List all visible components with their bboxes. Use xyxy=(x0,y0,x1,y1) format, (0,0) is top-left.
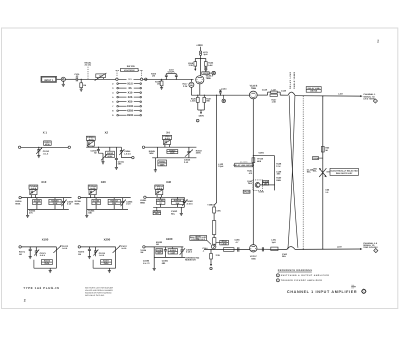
capacitor C1041 xyxy=(115,147,125,167)
svg-text:47K: 47K xyxy=(29,212,33,215)
resistor R101 1M xyxy=(80,79,87,89)
svg-text:CH 2 TERM: CH 2 TERM xyxy=(363,98,374,101)
supply arrow under R119 xyxy=(194,69,196,71)
svg-text:2-10.5: 2-10.5 xyxy=(187,202,194,205)
attenuator X40 input terminal xyxy=(144,196,185,198)
resistor R127 xyxy=(203,95,212,110)
svg-text:X10: X10 xyxy=(41,180,46,184)
svg-text:X100: X100 xyxy=(42,238,49,242)
svg-text:1µH: 1µH xyxy=(272,241,276,244)
svg-text:X4: X4 xyxy=(166,131,170,135)
resistor R143 xyxy=(213,238,216,245)
svg-text:.5-4.5: .5-4.5 xyxy=(40,254,46,257)
bottom rail hop over delay line xyxy=(287,247,295,250)
wire tube cathode long vertical xyxy=(252,99,254,245)
svg-text:COUPL: COUPL xyxy=(168,71,176,74)
trimmer capacitor C4050 xyxy=(61,198,74,210)
note box electrically selected xyxy=(326,168,358,175)
resistor R4044 value box xyxy=(158,160,167,166)
svg-text:7586: 7586 xyxy=(206,77,212,80)
wire X40 link lower xyxy=(156,207,158,210)
reference bubble lower xyxy=(210,267,212,270)
wire connector to node xyxy=(65,78,76,80)
svg-text:L157: L157 xyxy=(338,92,344,95)
svg-text:WITH BLUE OUTLINE.: WITH BLUE OUTLINE. xyxy=(85,294,105,297)
wire C107 bridge top bar xyxy=(166,73,176,75)
delay line shield dashed xyxy=(302,96,304,249)
capacitor C186 xyxy=(235,239,241,252)
ground under C1041 xyxy=(115,167,118,169)
svg-text:R1082: R1082 xyxy=(156,249,163,252)
trimmer arrow X2 xyxy=(98,153,107,162)
off page connector diamond top xyxy=(373,99,377,103)
diode D65 selected xyxy=(313,167,327,177)
wire long vertical to lower stage xyxy=(214,95,217,207)
svg-text:TP150: TP150 xyxy=(244,191,251,194)
svg-text:666K: 666K xyxy=(160,163,165,166)
svg-text:L147: L147 xyxy=(271,88,277,91)
svg-text:111K: 111K xyxy=(170,151,175,154)
capacitor C1082 xyxy=(164,247,167,258)
svg-text:3: 3 xyxy=(375,249,376,252)
vacuum tube V193 xyxy=(250,245,258,261)
svg-text:X250: X250 xyxy=(127,110,134,113)
svg-text:C148: C148 xyxy=(262,88,268,91)
svg-text:X200: X200 xyxy=(104,238,111,242)
capacitor C122 xyxy=(204,66,207,68)
attenuator X100 bottom rail xyxy=(34,267,57,269)
svg-text:1M: 1M xyxy=(78,253,81,256)
svg-text:X10: X10 xyxy=(128,91,133,94)
resistor R1055 label xyxy=(75,200,82,205)
svg-text:L197: L197 xyxy=(337,245,343,248)
svg-text:+225V: +225V xyxy=(196,44,203,47)
resistor R4047 label xyxy=(196,149,203,154)
test point TP150 xyxy=(243,190,264,193)
ground under X400 xyxy=(153,257,156,270)
wire tube plate right xyxy=(257,94,267,96)
resistor R1051 label xyxy=(15,200,22,205)
resistor R1056 to ground xyxy=(87,198,95,216)
svg-text:R1072: R1072 xyxy=(44,260,51,263)
svg-text:X40: X40 xyxy=(166,180,171,184)
delay line note xyxy=(307,168,314,173)
ground under X200 xyxy=(108,268,111,273)
delay line spec box xyxy=(306,87,321,93)
note box attenuator detail xyxy=(190,236,207,241)
ground under X20 xyxy=(85,215,88,217)
trimmer capacitor C1071 xyxy=(34,247,46,257)
svg-text:X2: X2 xyxy=(105,131,109,135)
svg-text:R4043: R4043 xyxy=(107,152,114,155)
coax connector symbol xyxy=(61,77,65,81)
switch contact row X10 xyxy=(112,91,141,94)
svg-text:SEL: SEL xyxy=(307,171,312,174)
svg-text:250K: 250K xyxy=(44,262,49,265)
switch contact row X100 xyxy=(112,105,141,108)
vacuum tube V133A xyxy=(196,74,214,84)
resistor R1071 label xyxy=(19,251,26,256)
svg-text:2.2K: 2.2K xyxy=(216,254,221,257)
node C107 junctions xyxy=(166,79,177,80)
resistor R1082 value box xyxy=(154,247,163,258)
svg-text:1.54K: 1.54K xyxy=(190,100,196,103)
test point TP130 xyxy=(202,71,216,75)
switch contact row X5 xyxy=(112,87,141,90)
svg-text:196K: 196K xyxy=(276,179,281,182)
ground under X40 xyxy=(180,207,183,215)
node junctions on rail xyxy=(197,95,221,96)
note box pointer arrow xyxy=(207,240,211,244)
capacitor C66 label xyxy=(325,189,330,194)
transistor Q153 dashed case xyxy=(253,180,263,191)
svg-text:1M: 1M xyxy=(156,243,159,246)
svg-text:RESISTOR: RESISTOR xyxy=(185,259,196,262)
svg-text:950K: 950K xyxy=(75,203,80,206)
svg-text:2.2K: 2.2K xyxy=(189,64,194,67)
svg-text:250K: 250K xyxy=(196,152,201,155)
svg-text:2.7K: 2.7K xyxy=(276,165,281,168)
trimmer capacitor C1076 xyxy=(93,247,105,257)
resistor R109 1M to ground xyxy=(155,79,163,88)
switch SW105 dashed frame xyxy=(116,70,143,77)
capacitor C124 xyxy=(219,87,227,95)
wire X4 link vertical xyxy=(157,147,159,158)
svg-text:X500: X500 xyxy=(127,114,134,117)
capacitor C1040 xyxy=(90,147,99,155)
trimmer capacitor C4046 xyxy=(184,147,193,164)
svg-text:X25: X25 xyxy=(128,96,133,99)
wire X200 right vertical xyxy=(115,247,117,268)
wire switch to grid rail xyxy=(143,78,194,80)
svg-text:1M: 1M xyxy=(83,84,86,87)
svg-text:AC DC: AC DC xyxy=(85,64,92,67)
arrow to trigger pickoff xyxy=(360,248,362,250)
wire to delay line xyxy=(280,94,288,96)
capacitor C159 labels xyxy=(276,170,282,175)
inductor L147 parallel resistor R147 xyxy=(268,88,281,103)
svg-text:DELAY LINE: DELAY LINE xyxy=(308,87,321,90)
wire cathode rail xyxy=(191,94,249,96)
reference item switching amplifier xyxy=(276,274,329,277)
trimmer capacitor C4041 xyxy=(87,141,94,147)
vacuum tube V143 xyxy=(249,91,257,99)
trimmer capacitor C103 xyxy=(95,73,107,81)
resistor R1081 label xyxy=(140,249,146,254)
capacitor C1075 xyxy=(88,246,91,256)
switch contact row X250 xyxy=(112,109,141,112)
attenuator X4 lower rail xyxy=(152,157,196,159)
resistor R144 value box xyxy=(216,240,229,245)
arrow to channel 2 xyxy=(360,95,362,97)
node plate branch xyxy=(200,58,201,59)
attenuator X2 output terminal xyxy=(121,156,134,158)
inductor L121 xyxy=(200,51,209,56)
svg-text:X50: X50 xyxy=(128,101,133,104)
svg-text:C1055: C1055 xyxy=(93,200,100,203)
switch contact row X2.5 xyxy=(112,82,141,85)
resistor R151 xyxy=(247,170,253,175)
wire X100 right vertical xyxy=(55,247,57,268)
svg-text:26K: 26K xyxy=(155,212,159,215)
svg-text:+100V: +100V xyxy=(207,203,214,206)
svg-text:C149: C149 xyxy=(281,90,287,93)
resistor R146 to -150V xyxy=(210,249,213,266)
svg-text:1M: 1M xyxy=(19,253,22,256)
svg-text:3: 3 xyxy=(277,279,278,282)
attenuator X400 lower rail xyxy=(154,256,185,258)
svg-text:1.5K: 1.5K xyxy=(272,101,277,104)
test point TP jack xyxy=(222,95,225,102)
resistor R1010 value box xyxy=(44,141,52,146)
svg-text:TRIGGER PICKOFF AMPLIFIER: TRIGGER PICKOFF AMPLIFIER xyxy=(281,279,323,282)
trimmer capacitor C4049 xyxy=(30,190,37,198)
capacitor C107B bridge xyxy=(175,74,178,80)
trimmer arrow C1077 xyxy=(113,245,128,253)
ground under X10 xyxy=(26,215,29,217)
svg-text:-150V: -150V xyxy=(198,115,204,118)
svg-text:X5: X5 xyxy=(128,87,132,90)
connector J1 INPUT 1 xyxy=(41,76,57,82)
resistor R150 xyxy=(252,158,264,163)
switch contact row X500 xyxy=(112,114,141,117)
wire X200 left lower vertical xyxy=(92,260,94,268)
ground under C1070 xyxy=(29,257,32,259)
inductor L130 labels xyxy=(0,0,1,1)
attenuator X10 input terminal xyxy=(19,196,72,198)
svg-text:DELAY LINE DRIVER: DELAY LINE DRIVER xyxy=(233,164,254,167)
svg-text:R4080: R4080 xyxy=(170,249,177,252)
svg-text:X 1: X 1 xyxy=(43,131,48,135)
svg-text:R4044: R4044 xyxy=(159,161,166,164)
svg-text:TYPE 1A2 PLUG-IN: TYPE 1A2 PLUG-IN xyxy=(23,286,59,290)
capacitor C188 xyxy=(262,247,263,251)
switch contact row X25 xyxy=(112,96,141,99)
resistor R4043 value box xyxy=(106,147,115,158)
switch SW101 AC-DC dashed link xyxy=(84,62,92,79)
svg-text:R4055A: R4055A xyxy=(110,200,118,203)
ground under connector xyxy=(62,81,65,86)
trimmer arrow C1072 xyxy=(53,245,68,253)
switch contact row X50 xyxy=(112,100,141,103)
resistor R160 labels xyxy=(276,177,282,182)
svg-text:2: 2 xyxy=(24,298,26,302)
svg-text:.5-4.5: .5-4.5 xyxy=(121,247,127,250)
trimmer capacitor C4055 xyxy=(89,190,96,198)
svg-text:1M: 1M xyxy=(140,251,143,254)
ground under R101 xyxy=(80,89,83,91)
delay line wire A xyxy=(289,95,298,247)
attenuator X200 input terminal xyxy=(78,246,115,248)
svg-text:+100V: +100V xyxy=(258,190,265,193)
wire X100 left lower vertical xyxy=(33,260,35,268)
switch contact row X1 xyxy=(116,78,143,81)
capacitor C4055A value box xyxy=(88,185,97,190)
resistor R185 xyxy=(224,248,235,252)
resistor R1085 label right xyxy=(185,256,200,261)
resistor R4049 value box xyxy=(49,198,61,210)
trimmer capacitor C4056 xyxy=(121,198,134,210)
resistor R122 xyxy=(201,59,214,67)
off page label trigger xyxy=(363,242,378,249)
attenuator X10 lower rail xyxy=(28,208,69,210)
ground under C1075 xyxy=(88,257,91,259)
ground under C1010 xyxy=(37,156,40,158)
resistor R105 label xyxy=(151,73,157,78)
reference drawings heading xyxy=(278,269,312,272)
svg-text:1M: 1M xyxy=(152,75,155,78)
capacitor C107A bridge xyxy=(165,74,168,80)
capacitor C160 label xyxy=(282,253,288,258)
svg-text:C124: C124 xyxy=(221,87,227,90)
wire bottom rail to pickoff xyxy=(295,248,360,250)
supply +225V branch xyxy=(253,152,275,157)
resistor R4055 value box xyxy=(108,198,120,210)
svg-text:30K: 30K xyxy=(206,100,210,103)
capacitor C1050 value box xyxy=(33,198,42,210)
svg-text:2: 2 xyxy=(375,100,376,103)
ground under R109 xyxy=(160,88,163,90)
delay line wire B xyxy=(288,96,295,250)
vacuum tube V143 labels xyxy=(250,84,258,89)
attenuator X400 input terminal xyxy=(143,246,184,248)
svg-text:1M: 1M xyxy=(157,83,160,86)
resistor R4061 value box xyxy=(171,197,183,207)
off page label channel 2 xyxy=(363,93,376,100)
svg-text:DELAY LINE: DELAY LINE xyxy=(289,71,292,89)
supply -150V arrow xyxy=(198,110,205,118)
resistor R158 labels xyxy=(276,163,282,168)
resistor R1075 label xyxy=(78,251,85,256)
svg-text:SW 105: SW 105 xyxy=(127,65,136,68)
reference item trigger pickoff xyxy=(276,279,322,282)
svg-text:.5-4.5: .5-4.5 xyxy=(88,138,94,141)
svg-text:400K: 400K xyxy=(45,143,50,146)
svg-text:186 NS: 186 NS xyxy=(310,90,318,93)
wire bottom rail left xyxy=(204,249,250,251)
capacitor C107 coupling label xyxy=(168,68,176,73)
resistor R1080 label above xyxy=(156,241,163,246)
svg-text:5.6K: 5.6K xyxy=(208,64,213,67)
svg-text:R4049A: R4049A xyxy=(51,200,59,203)
capacitor C1062 label xyxy=(171,210,178,215)
note box delay line driver xyxy=(233,161,254,167)
ground under C122 xyxy=(204,70,207,72)
svg-text:ELECTRICALLY SELECTED: ELECTRICALLY SELECTED xyxy=(331,169,359,172)
svg-text:SEL (NOTE): SEL (NOTE) xyxy=(240,161,248,163)
wire +225V to L121 xyxy=(200,47,202,51)
svg-text:R4061A: R4061A xyxy=(174,199,182,202)
svg-text:X20: X20 xyxy=(101,180,106,184)
resistor R119 xyxy=(188,59,200,70)
title revision mark xyxy=(351,284,356,289)
svg-text:SWITCHING & OUTPUT AMPLIFIER: SWITCHING & OUTPUT AMPLIFIER xyxy=(281,274,330,277)
switch wiper contact xyxy=(145,78,147,80)
svg-text:SEE PARTS LIST: SEE PARTS LIST xyxy=(336,172,353,175)
svg-text:1.5-4.5: 1.5-4.5 xyxy=(124,152,131,155)
wire bottom rail right xyxy=(257,248,287,250)
svg-text:X100: X100 xyxy=(127,105,134,108)
svg-text:750K: 750K xyxy=(149,152,154,155)
trimmer capacitor C4044 xyxy=(119,147,131,157)
trimmer capacitor C4061 xyxy=(156,190,163,198)
svg-text:53K: 53K xyxy=(88,212,92,215)
resistor R1052 to ground xyxy=(28,198,36,216)
resistor R126 xyxy=(190,95,199,110)
node dash shield end xyxy=(303,249,304,250)
capacitor C1084 label xyxy=(162,260,169,265)
svg-text:.5-1.5: .5-1.5 xyxy=(43,152,49,155)
svg-text:750K: 750K xyxy=(157,251,162,254)
svg-text:.1µH: .1µH xyxy=(203,53,208,56)
footer notes block xyxy=(85,287,114,298)
trimmer capacitor C4080 xyxy=(180,247,193,258)
inductor L191 xyxy=(271,239,278,251)
svg-text:2.2K: 2.2K xyxy=(183,85,188,88)
trimmer capacitor C4045 xyxy=(163,140,170,147)
capacitor C4061A value box xyxy=(155,185,164,190)
attenuator X4 input terminal xyxy=(142,146,196,148)
svg-text:X400: X400 xyxy=(166,237,173,241)
transistor Q143 xyxy=(211,244,216,249)
svg-text:+225V: +225V xyxy=(258,152,265,155)
wire C101 to switch xyxy=(78,78,116,80)
svg-text:INPUT 1: INPUT 1 xyxy=(44,79,54,82)
svg-text:R1077: R1077 xyxy=(103,260,110,263)
wire cathode down xyxy=(199,84,201,95)
resistor R1077 value box xyxy=(101,260,112,266)
switch SW105 label xyxy=(121,65,139,72)
svg-text:666K: 666K xyxy=(108,155,113,158)
neon lamp B118 xyxy=(183,79,194,95)
resistor R1061 label xyxy=(140,199,147,204)
resistor R4060 value box lower xyxy=(153,210,161,215)
test point TP65 xyxy=(313,157,323,161)
svg-text:NFB: NFB xyxy=(257,160,262,163)
svg-text:250K: 250K xyxy=(104,262,109,265)
capacitor C4045A value box xyxy=(162,135,171,140)
resistor R4080 value box xyxy=(168,247,177,255)
attenuator X20 lower rail xyxy=(87,208,128,210)
resistor R140 xyxy=(213,207,222,221)
svg-text:C1060: C1060 xyxy=(158,199,165,202)
attenuator X100 input terminal xyxy=(19,246,57,248)
attenuator X40 lower rail xyxy=(153,206,184,208)
delay line hop xyxy=(288,92,295,95)
capacitor C1070 xyxy=(29,246,32,256)
svg-text:VOLTS/DIV: VOLTS/DIV xyxy=(124,69,135,72)
svg-text:TP65: TP65 xyxy=(313,157,319,160)
svg-text:.5-4.5: .5-4.5 xyxy=(99,254,105,257)
capacitor C84 label xyxy=(202,247,208,252)
svg-text:2: 2 xyxy=(277,274,278,277)
capacitor C4041A value box xyxy=(86,136,95,141)
title sheet diamond xyxy=(362,289,367,294)
transistor Q153 xyxy=(247,180,260,187)
wire feedback vertical xyxy=(274,156,276,191)
svg-text:C1050: C1050 xyxy=(34,200,41,203)
svg-text:7586: 7586 xyxy=(251,87,257,90)
wire right trigger vertical xyxy=(322,96,324,249)
svg-text:SEL: SEL xyxy=(313,170,318,173)
reference bubble 2 xyxy=(196,119,199,122)
svg-text:990K: 990K xyxy=(140,202,145,205)
labels mode network xyxy=(196,235,202,240)
resistor R1072 value box xyxy=(42,260,53,266)
attenuator X200 bottom rail xyxy=(93,267,116,269)
capacitor C1055 value box xyxy=(92,198,101,210)
ground under X4 xyxy=(154,158,157,172)
